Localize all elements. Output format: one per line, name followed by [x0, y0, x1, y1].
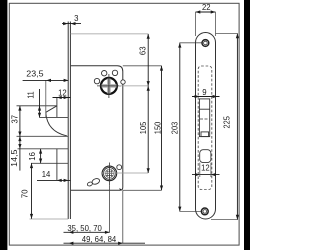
svg-text:70: 70	[20, 189, 29, 198]
latch front face	[56, 98, 58, 118]
latch tail rect	[201, 132, 209, 137]
bottom screw hole	[201, 208, 208, 215]
dim 11	[26, 89, 41, 118]
case back ext down	[122, 190, 124, 243]
follower ext to dim	[119, 85, 148, 87]
latch swing arc	[46, 112, 67, 136]
svg-text:22: 22	[202, 3, 211, 12]
cylinder knurl grid	[104, 168, 115, 179]
follower center mark	[97, 85, 121, 87]
latch slot front	[199, 99, 209, 137]
svg-text:9: 9	[202, 88, 206, 97]
border frame	[9, 3, 239, 245]
svg-text:11: 11	[26, 91, 35, 98]
svg-text:203: 203	[170, 122, 179, 134]
rivet blob A	[91, 178, 100, 186]
dim 63	[139, 34, 150, 86]
dim 12 front	[192, 163, 220, 177]
hidden case outline dashed	[198, 66, 212, 190]
svg-text:12: 12	[58, 88, 67, 97]
case top ext	[123, 65, 162, 67]
left black band	[0, 0, 7, 250]
svg-text:150: 150	[153, 121, 162, 134]
cylinder center extension to dim	[101, 172, 148, 174]
front faceplate top cap	[196, 33, 216, 43]
dim 105	[139, 86, 150, 173]
latch bottom line	[40, 117, 69, 119]
partition line	[17, 135, 69, 137]
small hole A	[102, 71, 107, 76]
dim 70	[20, 163, 33, 218]
dim 9	[192, 88, 220, 98]
dim 14,5	[10, 136, 22, 170]
svg-text:35, 50, 70: 35, 50, 70	[67, 224, 102, 233]
small hole D	[117, 165, 122, 170]
dim 22	[196, 3, 216, 36]
svg-text:105: 105	[139, 121, 148, 134]
lock case outline	[71, 66, 123, 191]
extension 23,5	[45, 80, 47, 117]
front faceplate right edge	[215, 43, 217, 210]
ext 225 top	[216, 33, 238, 35]
rivet blob B	[87, 181, 93, 186]
ext faceplate top to 63	[70, 33, 148, 35]
svg-text:23,5: 23,5	[26, 69, 44, 78]
corner arrow	[119, 188, 122, 190]
latch slot centerline	[200, 118, 209, 120]
cylinder inner ring	[104, 168, 116, 180]
dim backset 35,50,70	[64, 224, 110, 234]
svg-text:12: 12	[201, 164, 210, 173]
faceplate side view back edge	[69, 22, 71, 220]
dim 14	[37, 170, 71, 182]
svg-text:14: 14	[42, 170, 51, 179]
svg-text:3: 3	[74, 14, 78, 23]
deadbolt top	[18, 148, 69, 150]
svg-text:37: 37	[11, 115, 20, 124]
svg-text:225: 225	[223, 115, 232, 128]
deadbolt front face	[56, 149, 58, 180]
deadbolt bottom	[31, 162, 68, 164]
ext 225 bottom	[211, 219, 238, 221]
dim 225	[223, 34, 239, 220]
follower square grey cross	[102, 84, 117, 87]
front faceplate left edge	[195, 43, 197, 210]
svg-text:14,5: 14,5	[10, 149, 19, 167]
front faceplate bottom cap	[196, 209, 216, 219]
cylinder center mark vertical	[108, 163, 110, 186]
dim 16	[28, 149, 42, 164]
dim 203	[170, 43, 181, 212]
right black band	[244, 0, 250, 250]
case screw notch	[121, 80, 125, 84]
centerline down	[108, 185, 110, 232]
dim 150	[153, 66, 163, 191]
cylinder outer circle	[102, 166, 117, 181]
small hole B	[112, 70, 117, 75]
deadbolt cutout front	[200, 150, 211, 163]
dim 3	[62, 14, 81, 25]
follower hub ring	[101, 78, 117, 94]
latch bevel	[46, 106, 57, 113]
dim 37	[11, 106, 22, 137]
case bottom ext	[123, 189, 162, 191]
ext 203 top	[179, 42, 201, 44]
svg-text:49, 64, 84: 49, 64, 84	[82, 235, 117, 244]
small hole C	[94, 78, 99, 83]
faceplate side view front edge	[67, 22, 69, 220]
top screw hole	[202, 40, 209, 47]
svg-text:63: 63	[139, 47, 148, 56]
dim 12 side	[53, 88, 71, 99]
dim depth 49,64,84	[64, 235, 146, 245]
dim 23,5	[23, 69, 69, 82]
latch top line	[17, 105, 57, 107]
latch slot divider	[199, 108, 209, 110]
faceplate bottom ext	[30, 218, 69, 220]
svg-text:16: 16	[28, 152, 37, 161]
ext 203 bottom	[179, 210, 201, 212]
